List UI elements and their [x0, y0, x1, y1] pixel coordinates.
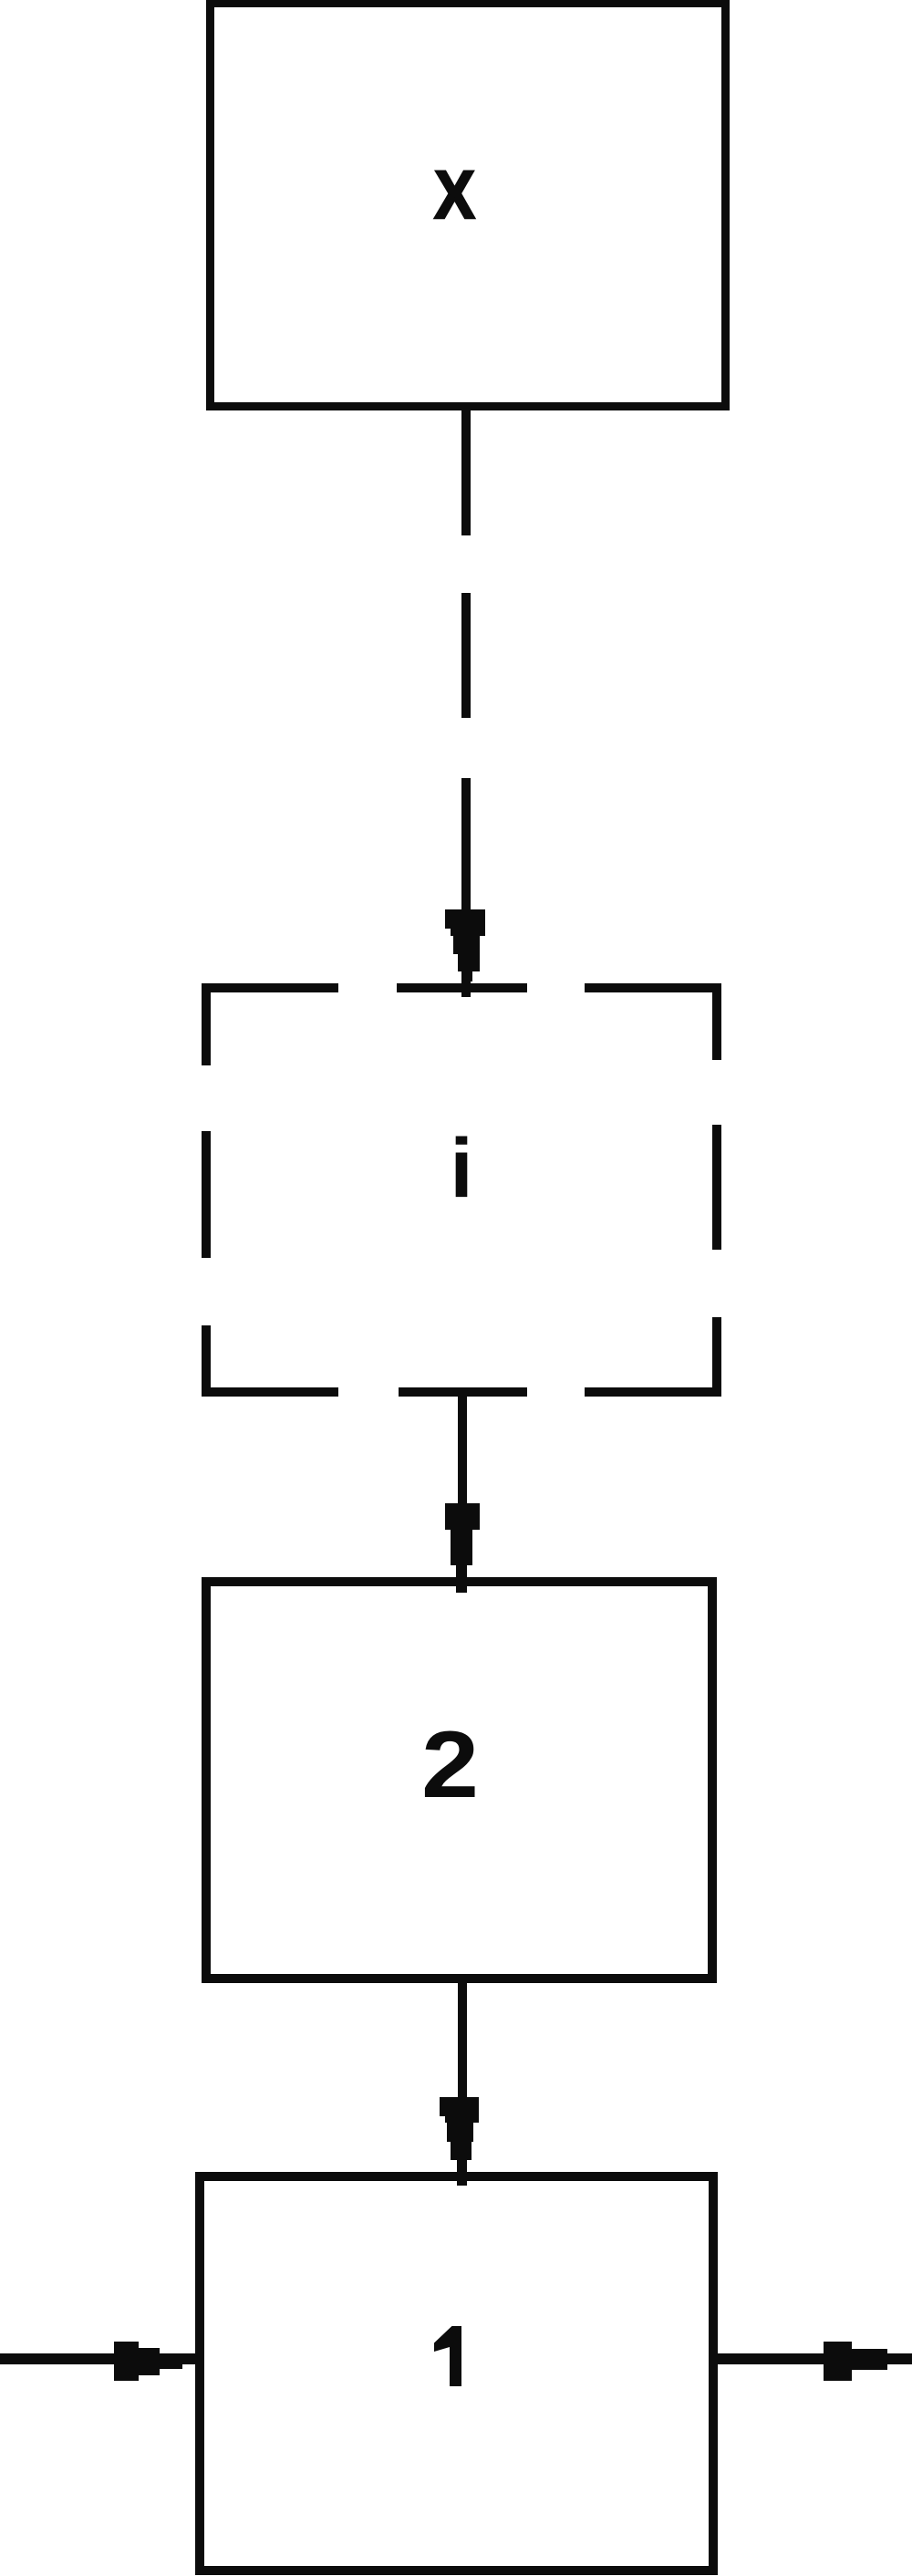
svg-text:i: i	[450, 1122, 473, 1215]
svg-text:2: 2	[421, 1712, 479, 1818]
svg-text:X: X	[434, 157, 474, 233]
